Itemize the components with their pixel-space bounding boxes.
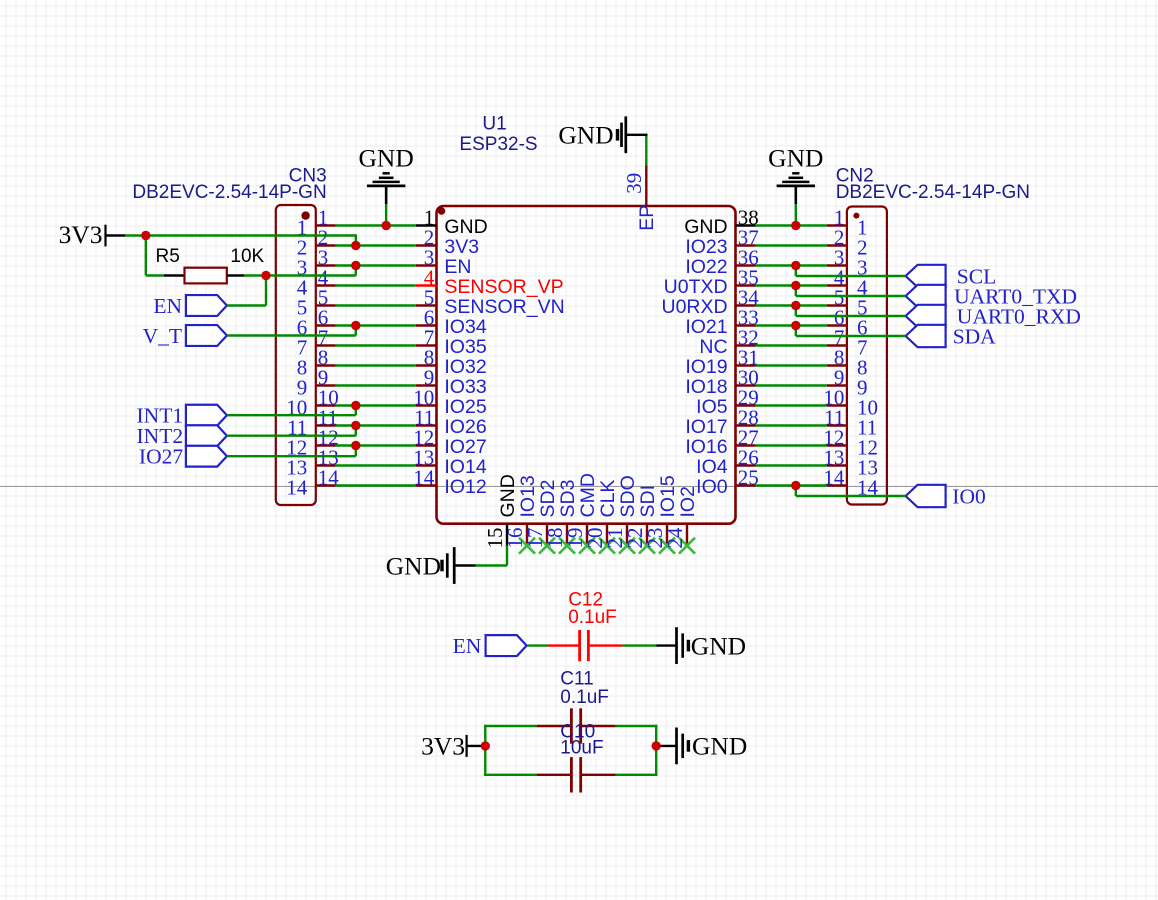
CN3 pin 8 stub bbox=[316, 364, 336, 366]
CN3 pin 2 stub bbox=[316, 244, 336, 246]
svg-text:IO15: IO15 bbox=[657, 475, 679, 517]
net flag INT1 bbox=[137, 404, 227, 428]
wire U1 pin15 to ground bbox=[476, 546, 507, 566]
wire U1 pin 31 to CN2 bbox=[756, 364, 827, 366]
U1 pin 7 stub bbox=[416, 344, 437, 346]
CN3 pin 5 stub bbox=[316, 304, 336, 306]
wire U1 pin 27 to CN2 bbox=[756, 444, 827, 446]
wire CN3 pin 11 to U1 bbox=[336, 424, 416, 426]
U1 pin 26 stub bbox=[736, 464, 756, 466]
junction node 14 bbox=[791, 321, 800, 330]
U1 pin 33 stub bbox=[736, 324, 756, 326]
wire 3V3 horizontal bbox=[125, 234, 355, 236]
svg-text:IO4: IO4 bbox=[696, 456, 728, 478]
U1 left pin names bbox=[444, 216, 564, 498]
CN3 pin 3 stub bbox=[316, 264, 336, 266]
U1 pin 11 stub bbox=[416, 424, 437, 426]
wire CN3 pin 13 to U1 bbox=[336, 464, 416, 466]
resistor R5 bbox=[164, 268, 244, 284]
svg-text:0.1uF: 0.1uF bbox=[568, 607, 617, 628]
junction node 1 bbox=[381, 221, 390, 230]
junction node 6 bbox=[351, 321, 360, 330]
svg-text:GND: GND bbox=[768, 144, 823, 173]
svg-text:CLK: CLK bbox=[597, 480, 619, 518]
U1 bottom pin names bbox=[497, 473, 699, 517]
wire ground right of C10 bbox=[656, 745, 676, 747]
svg-text:GND: GND bbox=[692, 732, 747, 761]
ground symbol at C10 bbox=[677, 728, 748, 765]
CN2 pin 3 stub bbox=[827, 264, 847, 266]
svg-text:EN: EN bbox=[453, 634, 482, 658]
CN2 pin 13 stub bbox=[827, 464, 847, 466]
junction node 5 bbox=[141, 231, 150, 240]
CN2 pin 2 stub bbox=[827, 244, 847, 246]
U1 pin-1 marker dot bbox=[438, 207, 446, 215]
CN3 pin 7 stub bbox=[316, 344, 336, 346]
svg-text:V_T: V_T bbox=[143, 324, 182, 348]
svg-text:IO34: IO34 bbox=[444, 316, 486, 338]
wire U1 pin 38 to CN2 bbox=[756, 224, 827, 226]
U1 pin 13 stub bbox=[416, 464, 437, 466]
svg-text:10uF: 10uF bbox=[560, 738, 603, 759]
net flag INT2 bbox=[137, 424, 227, 448]
U1 pin 6 stub bbox=[416, 324, 437, 326]
svg-text:IO0: IO0 bbox=[952, 485, 985, 509]
svg-text:GND: GND bbox=[684, 216, 727, 238]
svg-text:IO35: IO35 bbox=[444, 336, 486, 358]
U1 pin 28 stub bbox=[736, 424, 756, 426]
svg-text:IO32: IO32 bbox=[444, 356, 486, 378]
junction node 17 bbox=[652, 741, 661, 750]
svg-text:IO16: IO16 bbox=[685, 436, 727, 458]
CN2 pin numbers (outside) bbox=[823, 206, 845, 490]
U1 pin 12 stub bbox=[416, 444, 437, 446]
wire SDA to CN2 row bbox=[796, 324, 906, 336]
junction node 15 bbox=[791, 481, 800, 490]
svg-text:IO23: IO23 bbox=[685, 236, 727, 258]
svg-text:EN: EN bbox=[444, 256, 471, 278]
wire INT1 to row 10 bbox=[227, 404, 356, 415]
wire U1 pin 34 to CN2 bbox=[756, 304, 827, 306]
wire R5 to row 3 jog bbox=[244, 264, 356, 275]
U1 pin 15 stub bbox=[506, 524, 508, 546]
svg-text:GND: GND bbox=[444, 216, 487, 238]
wire CN3 pin 14 to U1 bbox=[336, 484, 416, 486]
net flag SCL bbox=[906, 265, 997, 289]
wire CN3 pin 9 to U1 bbox=[336, 384, 416, 386]
wire U1 pin 37 to CN2 bbox=[756, 244, 827, 246]
junction node 10 bbox=[791, 221, 800, 230]
net flag IO0 bbox=[906, 485, 986, 509]
ground symbol above CN3 wire bbox=[359, 144, 414, 205]
wire 3V3 down to R5 bbox=[146, 236, 164, 276]
wire bottom rail right bbox=[616, 774, 658, 776]
wire EP pin to ground bbox=[645, 135, 647, 166]
wire U1 pin 32 to CN2 bbox=[756, 344, 827, 346]
no-connect X on pin 16 bbox=[519, 538, 535, 554]
svg-text:IO14: IO14 bbox=[444, 456, 486, 478]
no-connect X on pin 20 bbox=[599, 538, 615, 554]
U1 pin 20 stub bbox=[606, 524, 608, 546]
CN2 pin 14 stub bbox=[827, 484, 847, 486]
wire ground to CN2 row 1 bbox=[795, 204, 797, 227]
CN3 pin numbers (outside) bbox=[318, 206, 340, 490]
U1 pin 16 stub bbox=[526, 524, 528, 546]
no-connect X on pin 18 bbox=[559, 538, 575, 554]
CN2 pin 11 stub bbox=[827, 424, 847, 426]
connector CN2 body bbox=[847, 207, 887, 505]
U1 pin 3 stub bbox=[416, 264, 437, 266]
wire CN3 pin 10 to U1 bbox=[336, 404, 416, 406]
U1 pin 35 stub bbox=[736, 284, 756, 286]
CN3 pin numbers (inside) bbox=[286, 216, 308, 500]
U1 pin 5 stub bbox=[416, 304, 437, 306]
svg-text:SDO: SDO bbox=[617, 475, 639, 517]
U1 pin 19 stub bbox=[586, 524, 588, 546]
svg-text:SDA: SDA bbox=[953, 325, 996, 349]
wire V_T to row 6 bbox=[227, 324, 356, 335]
junction node 12 bbox=[791, 281, 800, 290]
U1 pin 4 stub bbox=[416, 284, 437, 286]
svg-text:U1: U1 bbox=[482, 114, 506, 135]
U1 pin 32 stub bbox=[736, 344, 756, 346]
wire CN3 pin 8 to U1 bbox=[336, 364, 416, 366]
svg-text:GND: GND bbox=[497, 474, 519, 517]
svg-text:14: 14 bbox=[413, 466, 435, 490]
svg-text:10K: 10K bbox=[230, 246, 264, 267]
wire CN3 pin 12 to U1 bbox=[336, 444, 416, 446]
ground symbol at C12 bbox=[657, 627, 747, 664]
wire UART0_TXD to CN2 row bbox=[796, 284, 906, 296]
net flag SDA bbox=[906, 325, 997, 349]
wire CN3 pin 1 to U1 bbox=[336, 224, 416, 226]
U1 pin 21 stub bbox=[626, 524, 628, 546]
wire CN3 pin 3 to U1 bbox=[336, 264, 416, 266]
U1 pin 23 stub bbox=[666, 524, 668, 546]
CN2 pin 10 stub bbox=[827, 404, 847, 406]
CN2 pin 6 stub bbox=[827, 324, 847, 326]
svg-text:3V3: 3V3 bbox=[421, 731, 465, 760]
U1 pin 8 stub bbox=[416, 364, 437, 366]
svg-text:IO18: IO18 bbox=[685, 376, 727, 398]
wire U1 pin 29 to CN2 bbox=[756, 404, 827, 406]
wire U1 pin 26 to CN2 bbox=[756, 464, 827, 466]
svg-text:GND: GND bbox=[359, 144, 414, 173]
CN2 pin numbers (inside) bbox=[857, 216, 879, 500]
svg-text:IO13: IO13 bbox=[517, 475, 539, 517]
svg-text:IO33: IO33 bbox=[444, 376, 486, 398]
net flag EN (C12) bbox=[453, 634, 527, 658]
svg-text:SENSOR_VP: SENSOR_VP bbox=[444, 276, 563, 298]
wire C12 to ground bbox=[622, 644, 657, 646]
svg-text:GND: GND bbox=[558, 121, 613, 150]
U1 pin 17 stub bbox=[546, 524, 548, 546]
svg-text:DB2EVC-2.54-14P-GN: DB2EVC-2.54-14P-GN bbox=[132, 182, 326, 203]
U1 pin 22 stub bbox=[646, 524, 648, 546]
net label 3V3 (bottom) bbox=[421, 731, 485, 760]
U1 pin 39 EP stub bbox=[645, 166, 647, 207]
wire UART0_RXD to CN2 row bbox=[796, 304, 906, 316]
no-connect X on pin 19 bbox=[579, 538, 595, 554]
U1 pin 38 stub bbox=[736, 224, 756, 226]
U1 pin 37 stub bbox=[736, 244, 756, 246]
U1 pin 24 stub bbox=[686, 524, 688, 546]
U1 pin 31 stub bbox=[736, 364, 756, 366]
wire CN3 pin 5 to U1 bbox=[336, 304, 416, 306]
svg-text:IO12: IO12 bbox=[444, 476, 486, 498]
svg-text:U0TXD: U0TXD bbox=[664, 276, 728, 298]
capacitor C12 bbox=[547, 630, 622, 661]
wire U1 pin 28 to CN2 bbox=[756, 424, 827, 426]
CN2 pin 1 stub bbox=[827, 224, 847, 226]
wire U1 pin 36 to CN2 bbox=[756, 264, 827, 266]
wire U1 pin 25 to CN2 bbox=[756, 484, 827, 486]
junction node 8 bbox=[351, 421, 360, 430]
wire U1 pin 35 to CN2 bbox=[756, 284, 827, 286]
net flag UART0_TXD bbox=[906, 285, 1077, 309]
wire EN flag to R5 net bbox=[227, 276, 266, 306]
wire 3V3 down to row 2 bbox=[355, 234, 357, 245]
U1 left pin numbers 1-14 bbox=[413, 206, 435, 490]
wire U1 pin 30 to CN2 bbox=[756, 384, 827, 386]
U1 pin 36 stub bbox=[736, 264, 756, 266]
wire CN3 pin 4 to U1 bbox=[336, 284, 416, 286]
svg-text:EP: EP bbox=[636, 205, 658, 231]
CN3 pin 13 stub bbox=[316, 464, 336, 466]
ground symbol at pin 15 bbox=[386, 547, 476, 584]
svg-text:IO22: IO22 bbox=[685, 256, 727, 278]
CN2 pin 8 stub bbox=[827, 364, 847, 366]
svg-text:U0RXD: U0RXD bbox=[661, 296, 727, 318]
svg-text:0.1uF: 0.1uF bbox=[560, 687, 609, 708]
capacitor C11 bbox=[537, 708, 616, 743]
CN3 pin 12 stub bbox=[316, 444, 336, 446]
U1 pin 1 stub bbox=[416, 224, 437, 226]
connector CN3 body bbox=[276, 205, 316, 505]
U1 pin 25 stub bbox=[736, 484, 756, 486]
svg-text:ESP32-S: ESP32-S bbox=[459, 134, 537, 155]
net flag IO27 bbox=[139, 445, 227, 469]
CN3 pin 9 stub bbox=[316, 384, 336, 386]
wire left rail vertical bbox=[484, 725, 486, 776]
junction node 4 bbox=[261, 271, 270, 280]
wire IO0 to CN2 row bbox=[796, 484, 906, 496]
U1 bottom pin numbers 15-24 bbox=[483, 527, 687, 549]
U1 pin 18 stub bbox=[566, 524, 568, 546]
svg-text:IO25: IO25 bbox=[444, 396, 486, 418]
svg-text:14: 14 bbox=[286, 476, 308, 500]
svg-text:IO5: IO5 bbox=[696, 396, 728, 418]
wire bottom rail left bbox=[484, 774, 536, 776]
U1 pin 9 stub bbox=[416, 384, 437, 386]
wire INT2 to row 11 bbox=[227, 424, 356, 435]
CN2 pin 12 stub bbox=[827, 444, 847, 446]
CN3 pin 11 stub bbox=[316, 424, 336, 426]
CN2 pin 7 stub bbox=[827, 344, 847, 346]
svg-text:IO2: IO2 bbox=[677, 486, 699, 517]
CN3 pin-1 marker dot bbox=[301, 211, 309, 219]
no-connect X on pin 24 bbox=[679, 538, 695, 554]
net flag UART0_RXD bbox=[906, 305, 1081, 329]
no-connect X on pin 17 bbox=[539, 538, 555, 554]
CN2 pin 5 stub bbox=[827, 304, 847, 306]
svg-text:DB2EVC-2.54-14P-GN: DB2EVC-2.54-14P-GN bbox=[836, 182, 1030, 203]
wire ground to row 1 bbox=[385, 204, 387, 227]
svg-text:24: 24 bbox=[663, 527, 687, 549]
U1 pin 14 stub bbox=[416, 484, 437, 486]
junction node 9 bbox=[351, 441, 360, 450]
wire CN3 pin 2 to U1 bbox=[336, 244, 416, 246]
U1 pin 27 stub bbox=[736, 444, 756, 446]
ground symbol above CN2 bbox=[768, 144, 823, 205]
CN3 pin 1 stub bbox=[316, 224, 336, 226]
capacitor C10 bbox=[537, 757, 616, 792]
U1 pin 10 stub bbox=[416, 404, 437, 406]
CN2 pin 4 stub bbox=[827, 284, 847, 286]
net flag EN bbox=[153, 294, 227, 318]
U1 right pin names bbox=[661, 216, 727, 498]
svg-text:IO27: IO27 bbox=[444, 436, 486, 458]
U1 pin 34 stub bbox=[736, 304, 756, 306]
svg-text:IO17: IO17 bbox=[685, 416, 727, 438]
wire CN3 pin 6 to U1 bbox=[336, 324, 416, 326]
svg-text:39: 39 bbox=[622, 173, 646, 194]
wire top rail left bbox=[484, 725, 536, 727]
sheet boundary line bbox=[0, 486, 1158, 488]
svg-text:IO21: IO21 bbox=[685, 316, 727, 338]
svg-text:GND: GND bbox=[691, 631, 746, 660]
svg-text:SD3: SD3 bbox=[557, 480, 579, 518]
junction node 11 bbox=[791, 261, 800, 270]
no-connect X on pin 23 bbox=[659, 538, 675, 554]
junction node 16 bbox=[481, 741, 490, 750]
wire right rail vertical bbox=[655, 725, 657, 776]
no-connect X on pin 21 bbox=[619, 538, 635, 554]
wire EN to C12 bbox=[527, 644, 547, 646]
net flag V_T bbox=[143, 324, 227, 348]
svg-text:R5: R5 bbox=[156, 246, 180, 267]
junction node 7 bbox=[351, 401, 360, 410]
wire IO27 to row 12 bbox=[227, 444, 356, 456]
svg-text:EN: EN bbox=[153, 294, 182, 318]
svg-text:CMD: CMD bbox=[577, 473, 599, 517]
CN2 pin-1 marker dot bbox=[853, 213, 859, 219]
junction node 13 bbox=[791, 301, 800, 310]
CN3 pin 10 stub bbox=[316, 404, 336, 406]
wire SCL to CN2 row bbox=[796, 264, 906, 276]
svg-text:SDI: SDI bbox=[637, 485, 659, 518]
U1 pin 29 stub bbox=[736, 404, 756, 406]
svg-text:GND: GND bbox=[386, 551, 441, 580]
svg-text:SENSOR_VN: SENSOR_VN bbox=[444, 296, 564, 318]
svg-text:SD2: SD2 bbox=[537, 480, 559, 518]
svg-text:IO0: IO0 bbox=[696, 476, 728, 498]
ground symbol at EP pin bbox=[558, 116, 647, 153]
U1 right pin numbers 38-25 bbox=[738, 206, 760, 490]
net label 3V3 bbox=[59, 220, 126, 249]
svg-text:IO19: IO19 bbox=[685, 356, 727, 378]
svg-text:3V3: 3V3 bbox=[444, 236, 479, 258]
chip U1 ESP32-S module body bbox=[437, 206, 736, 524]
wire top rail right bbox=[616, 725, 658, 727]
wire CN3 pin 7 to U1 bbox=[336, 344, 416, 346]
svg-text:IO27: IO27 bbox=[139, 445, 183, 469]
no-connect X on pin 22 bbox=[639, 538, 655, 554]
U1 pin 2 stub bbox=[416, 244, 437, 246]
svg-text:NC: NC bbox=[699, 336, 727, 358]
CN3 pin 6 stub bbox=[316, 324, 336, 326]
svg-text:IO26: IO26 bbox=[444, 416, 486, 438]
wire U1 pin 33 to CN2 bbox=[756, 324, 827, 326]
junction node 3 bbox=[351, 261, 360, 270]
junction node 2 bbox=[351, 241, 360, 250]
CN3 pin 14 stub bbox=[316, 484, 336, 486]
svg-text:3V3: 3V3 bbox=[59, 220, 103, 249]
CN3 pin 4 stub bbox=[316, 284, 336, 286]
CN2 pin 9 stub bbox=[827, 384, 847, 386]
U1 pin 30 stub bbox=[736, 384, 756, 386]
